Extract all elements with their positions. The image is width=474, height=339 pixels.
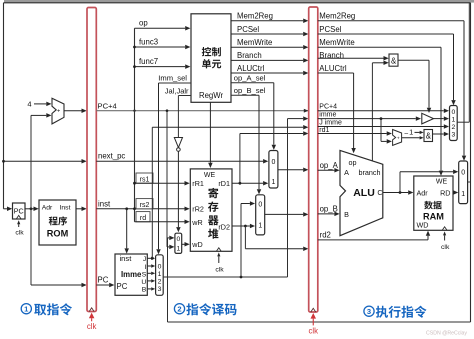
svg-text:A: A — [344, 168, 349, 177]
wire rd2 to bar2 — [244, 226, 246, 249]
svg-text:op_A_sel: op_A_sel — [234, 74, 266, 83]
svg-text:ROM: ROM — [47, 229, 69, 239]
svg-text:2: 2 — [158, 278, 162, 285]
clk bar1 — [89, 313, 95, 319]
wire PC to ROM — [25, 208, 34, 210]
svg-text:op_A: op_A — [320, 161, 339, 170]
wire rD1 out — [232, 182, 263, 184]
svg-text:Branch: Branch — [237, 51, 262, 60]
wire wb out — [468, 181, 471, 183]
svg-text:MemWrite: MemWrite — [237, 38, 272, 47]
wire next_pc out of mux — [457, 121, 469, 123]
svg-text:J imme: J imme — [319, 120, 342, 127]
gate AND mask — [402, 137, 420, 139]
svg-text:Adr: Adr — [417, 189, 429, 198]
svg-text:inst: inst — [120, 254, 133, 263]
svg-text:op: op — [349, 158, 357, 167]
svg-text:Imme: Imme — [121, 270, 142, 279]
buffer triangle — [422, 113, 434, 124]
svg-text:rs2: rs2 — [140, 202, 150, 209]
wire bottom border — [168, 321, 471, 323]
svg-text:0: 0 — [272, 159, 276, 166]
svg-text:0: 0 — [158, 263, 162, 270]
svg-text:0: 0 — [461, 169, 465, 176]
svg-text:3: 3 — [158, 286, 162, 293]
svg-text:clk: clk — [215, 267, 224, 274]
Imme unit — [115, 254, 147, 295]
svg-text:imme: imme — [319, 112, 336, 119]
wire ALU C out — [383, 192, 408, 194]
control unit 控制单元 — [191, 14, 231, 103]
svg-text:func7: func7 — [139, 57, 158, 66]
svg-text:Inst: Inst — [60, 204, 71, 211]
svg-text:PC: PC — [14, 207, 24, 216]
svg-text:+: + — [57, 108, 60, 114]
svg-text:1: 1 — [158, 271, 162, 278]
svg-text:4: 4 — [27, 100, 31, 109]
svg-text:U: U — [141, 279, 146, 286]
wire PC down to bar1 (PC row) — [31, 284, 82, 286]
wire top border (next_pc route) — [4, 2, 471, 4]
svg-text:func3: func3 — [139, 38, 158, 47]
svg-text:PC: PC — [117, 282, 128, 291]
mux imm select 0123 — [156, 255, 164, 295]
svg-text:RD: RD — [440, 189, 450, 198]
top grey strip — [4, 0, 474, 3]
inverter on Jal,Jalr — [174, 138, 182, 148]
svg-text:0: 0 — [258, 201, 262, 208]
ALU — [340, 150, 383, 235]
svg-text:Mem2Reg: Mem2Reg — [319, 12, 355, 21]
wire wb riser to wD mux — [167, 238, 169, 322]
wire into PC — [4, 208, 8, 210]
adder PC+4 — [52, 98, 64, 124]
wire left border down to PC — [3, 3, 5, 209]
node inst vertical — [134, 28, 136, 222]
label stage3 — [364, 306, 374, 316]
svg-text:wD: wD — [191, 240, 202, 249]
ROM 程序ROM — [39, 200, 76, 245]
wire rd — [136, 212, 150, 222]
wire imme branch to op_B mux — [240, 276, 243, 279]
svg-text:~: ~ — [404, 129, 408, 138]
wire rs1 — [136, 173, 153, 183]
adder2 jalr target — [393, 130, 402, 146]
svg-text:0: 0 — [452, 109, 456, 116]
svg-text:rd2: rd2 — [320, 231, 331, 240]
wire AND out to buffer enable — [398, 59, 429, 61]
svg-text:+: + — [397, 137, 400, 142]
svg-text:PC+4: PC+4 — [98, 101, 117, 110]
svg-text:PCSel: PCSel — [237, 25, 259, 34]
svg-text:rR1: rR1 — [192, 179, 204, 188]
svg-text:CSDN @ReCclay: CSDN @ReCclay — [426, 330, 467, 336]
wire right border (wb route) — [470, 3, 472, 322]
wire ALU branch cond to AND — [371, 63, 373, 161]
clk marker regfile — [216, 248, 221, 252]
node PC net vertical — [30, 115, 32, 285]
wires Imme outputs JISUB — [147, 257, 151, 259]
svg-text:ALUCtrl: ALUCtrl — [237, 64, 265, 73]
gate AND branch — [389, 54, 398, 66]
svg-text:rd1: rd1 — [319, 127, 329, 134]
svg-text:WD: WD — [417, 221, 429, 230]
clk bar2 — [311, 313, 317, 319]
register PC — [13, 203, 26, 219]
svg-text:J: J — [143, 256, 146, 263]
mux wD 01 — [175, 233, 182, 253]
svg-text:op: op — [139, 19, 148, 28]
wire PC+4 down to wD mux — [166, 111, 168, 247]
mux wb 01 — [459, 161, 468, 204]
svg-text:clk: clk — [15, 230, 24, 237]
svg-text:Jal,Jalr: Jal,Jalr — [165, 87, 189, 96]
svg-text:1: 1 — [24, 305, 29, 314]
svg-text:rd: rd — [140, 215, 146, 222]
svg-text:&: & — [426, 132, 432, 141]
wire rs2 (inst row) label — [136, 199, 153, 209]
register file 寄存器堆 — [190, 169, 232, 251]
wire next_pc from border — [2, 160, 5, 163]
svg-text:C: C — [377, 188, 382, 197]
wire adder out PC+4 — [64, 110, 82, 112]
svg-text:rD2: rD2 — [218, 222, 230, 231]
svg-text:rD1: rD1 — [218, 179, 230, 188]
svg-text:3: 3 — [452, 132, 456, 139]
svg-text:2: 2 — [177, 305, 181, 314]
svg-text:PC+4: PC+4 — [319, 103, 337, 110]
wire inst to Imme — [125, 207, 128, 210]
pipeline register bar2 — [309, 7, 318, 312]
svg-text:Adr: Adr — [42, 204, 53, 211]
wire inst ROM to bar1 — [76, 208, 82, 210]
svg-text:I: I — [144, 264, 146, 271]
clk marker RAM — [442, 227, 447, 231]
pipeline register bar1 — [87, 8, 96, 312]
svg-text:clk: clk — [308, 326, 318, 335]
svg-text:rs1: rs1 — [140, 176, 150, 183]
svg-text:1: 1 — [258, 222, 262, 229]
mux op_B 01 — [256, 195, 265, 235]
wire imme out — [163, 276, 287, 278]
svg-text:1: 1 — [177, 246, 181, 253]
wire RegWr to regfile WE — [209, 102, 211, 163]
svg-text:Branch: Branch — [319, 51, 344, 60]
svg-text:PCSel: PCSel — [319, 25, 341, 34]
svg-text:Imm_sel: Imm_sel — [158, 74, 187, 83]
svg-text:next_pc: next_pc — [98, 152, 125, 161]
wire rd1 riser to bar2 — [239, 134, 241, 184]
svg-text:1: 1 — [452, 117, 456, 124]
svg-text:Mem2Reg: Mem2Reg — [237, 12, 273, 21]
svg-text:wR: wR — [191, 218, 202, 227]
label stage1 — [21, 304, 31, 314]
mux PCSel 0123 — [450, 106, 458, 141]
svg-text:&: & — [391, 56, 397, 65]
svg-text:1: 1 — [272, 179, 276, 186]
svg-text:WE: WE — [204, 172, 216, 179]
svg-text:S: S — [142, 271, 147, 278]
wire PC up to adder — [31, 114, 46, 116]
wire C up to wb mux — [399, 172, 401, 193]
wire imme down to adder2 — [380, 119, 382, 142]
wire J imme riser — [151, 257, 154, 260]
mux op_A 01 — [269, 151, 278, 189]
svg-text:clk: clk — [441, 244, 450, 251]
svg-text:3: 3 — [367, 307, 371, 316]
svg-text:0: 0 — [177, 236, 181, 243]
clk marker PC — [16, 215, 21, 219]
svg-text:ALUCtrl: ALUCtrl — [319, 64, 347, 73]
svg-text:clk: clk — [87, 322, 97, 331]
svg-text:op_B_sel: op_B_sel — [234, 86, 266, 95]
svg-text:1: 1 — [409, 128, 413, 137]
svg-text:branch: branch — [359, 168, 381, 177]
svg-text:1: 1 — [461, 191, 465, 198]
svg-text:WE: WE — [436, 179, 448, 186]
svg-text:inst: inst — [98, 199, 111, 208]
svg-text:B: B — [142, 286, 147, 293]
svg-text:RegWr: RegWr — [199, 91, 224, 100]
wire RD out — [452, 192, 454, 194]
wire rD2 out — [232, 225, 250, 227]
svg-text:MemWrite: MemWrite — [319, 38, 354, 47]
svg-text:B: B — [344, 210, 349, 219]
svg-text:2: 2 — [452, 124, 456, 131]
svg-text:PC: PC — [98, 276, 109, 285]
RAM 数据RAM — [414, 176, 453, 230]
svg-text:ALU: ALU — [353, 187, 375, 199]
svg-text:rR2: rR2 — [192, 205, 204, 214]
wire PC+4 row (bus) — [96, 110, 308, 112]
label stage2 — [174, 304, 184, 314]
